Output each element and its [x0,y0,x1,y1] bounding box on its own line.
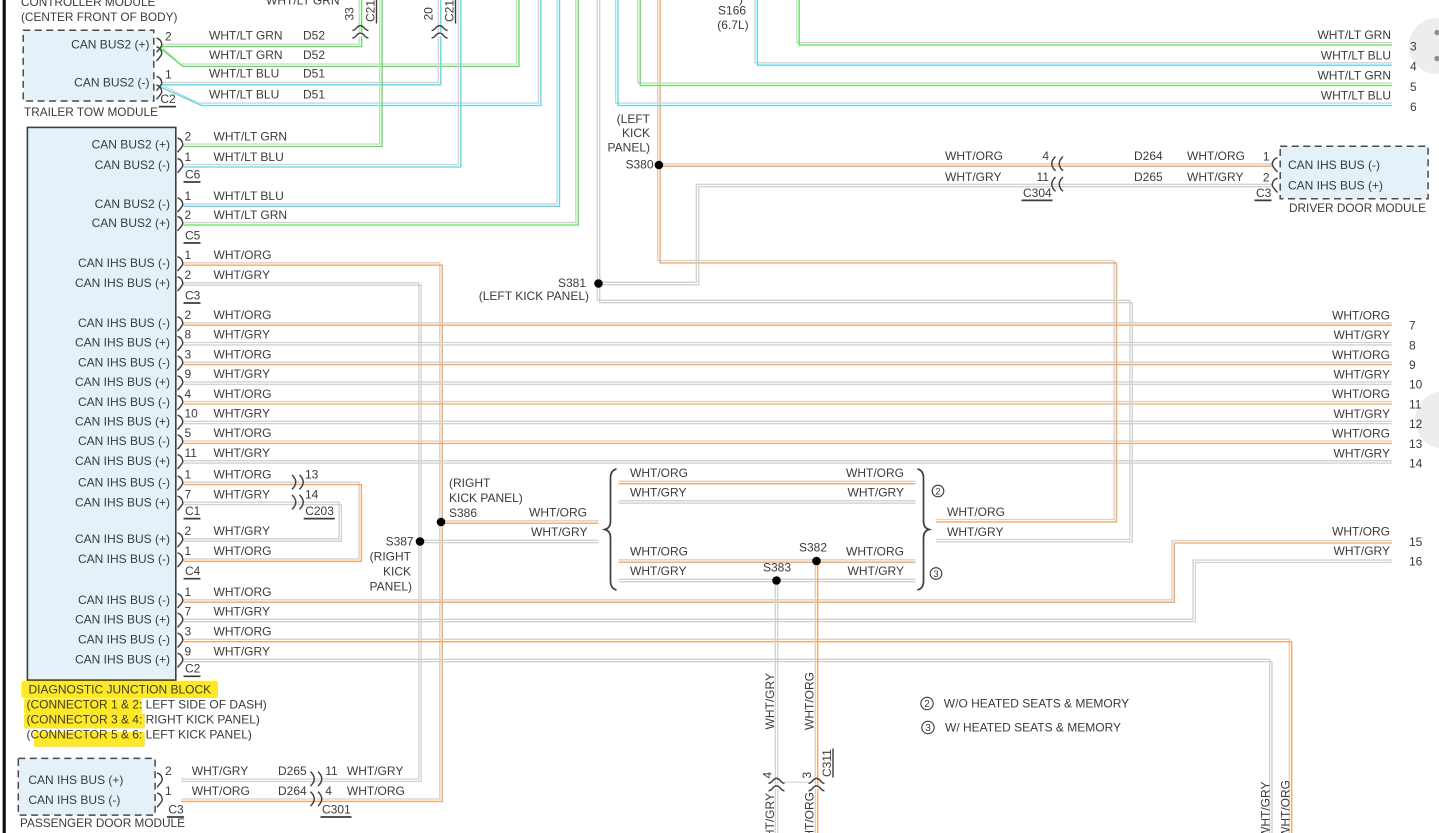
svg-text:S380: S380 [625,158,653,172]
svg-text:WHT/ORG: WHT/ORG [947,505,1005,519]
svg-text:3: 3 [1410,39,1417,53]
svg-text:2: 2 [165,29,172,43]
svg-text:WHT/ORG: WHT/ORG [1332,524,1390,538]
svg-text:WHT/GRY: WHT/GRY [531,525,587,539]
svg-text:CAN IHS BUS (+): CAN IHS BUS (+) [75,532,170,546]
svg-text:2: 2 [185,308,192,322]
svg-text:WHT/LT BLU: WHT/LT BLU [209,87,279,101]
svg-text:1: 1 [185,150,192,164]
svg-text:WHT/GRY: WHT/GRY [347,764,403,778]
svg-text:WHT/GRY: WHT/GRY [1334,446,1390,460]
svg-text:9: 9 [185,645,192,659]
svg-text:CAN IHS BUS (+): CAN IHS BUS (+) [75,653,170,667]
svg-text:(RIGHT: (RIGHT [449,476,491,490]
svg-text:WHT/ORG: WHT/ORG [803,672,817,730]
svg-text:3: 3 [933,569,938,580]
svg-text:WHT/ORG: WHT/ORG [846,466,904,480]
svg-text:5: 5 [1410,80,1417,94]
svg-text:2: 2 [924,699,930,710]
svg-text:13: 13 [305,467,319,481]
svg-text:CAN IHS BUS (-): CAN IHS BUS (-) [78,256,170,270]
svg-text:D52: D52 [303,48,325,62]
svg-text:3: 3 [800,772,814,779]
svg-text:KICK PANEL): KICK PANEL) [449,491,523,505]
svg-text:WHT/ORG: WHT/ORG [1332,308,1390,322]
svg-text:WHT/ORG: WHT/ORG [214,426,272,440]
svg-text:CAN BUS2 (-): CAN BUS2 (-) [74,76,149,90]
svg-text:D51: D51 [303,67,325,81]
svg-text:CAN IHS BUS (+): CAN IHS BUS (+) [1288,179,1383,193]
svg-text:CAN IHS BUS (+): CAN IHS BUS (+) [75,336,170,350]
svg-text:(CONNECTOR 1 & 2: LEFT SIDE OF: (CONNECTOR 1 & 2: LEFT SIDE OF DASH) [27,697,267,711]
svg-text:DRIVER DOOR MODULE: DRIVER DOOR MODULE [1289,201,1426,215]
svg-text:WHT/ORG: WHT/ORG [1332,427,1390,441]
svg-text:CAN IHS BUS (-): CAN IHS BUS (-) [78,552,170,566]
svg-text:2: 2 [935,486,940,497]
svg-text:WHT/LT GRN: WHT/LT GRN [1317,28,1391,42]
svg-text:WHT/GRY: WHT/GRY [214,487,270,501]
svg-text:TRAILER TOW MODULE: TRAILER TOW MODULE [24,105,158,119]
svg-text:WHT/GRY: WHT/GRY [1334,368,1390,382]
svg-text:(RIGHT: (RIGHT [370,550,412,564]
svg-text:20: 20 [422,7,436,21]
svg-text:S381: S381 [558,276,586,290]
svg-text:7: 7 [185,487,192,501]
svg-text:WHT/GRY: WHT/GRY [630,486,686,500]
svg-text:WHT/ORG: WHT/ORG [945,149,1003,163]
svg-text:11: 11 [1037,170,1050,184]
svg-text:WHT/ORG: WHT/ORG [214,585,272,599]
svg-text:4: 4 [185,387,192,401]
svg-text:7: 7 [1409,319,1416,333]
svg-text:(CONNECTOR 5 & 6: LEFT KICK PA: (CONNECTOR 5 & 6: LEFT KICK PANEL) [27,727,252,741]
svg-text:C210: C210 [443,0,457,22]
svg-text:WHT/GRY: WHT/GRY [848,486,904,500]
svg-text:8: 8 [1409,338,1416,352]
svg-text:WHT/LT BLU: WHT/LT BLU [1321,48,1391,62]
svg-text:2: 2 [185,524,192,538]
svg-text:1: 1 [185,544,192,558]
svg-text:16: 16 [1409,554,1423,568]
svg-text:WHT/ORG: WHT/ORG [1332,387,1390,401]
svg-text:1: 1 [185,467,192,481]
svg-text:11: 11 [1409,397,1422,411]
svg-text:C203: C203 [305,504,334,518]
svg-text:WHT/GRY: WHT/GRY [947,525,1003,539]
svg-text:11: 11 [325,764,338,778]
svg-text:2: 2 [165,764,172,778]
svg-text:KICK: KICK [622,126,650,140]
svg-text:2: 2 [185,208,192,222]
svg-text:WHT/ORG: WHT/ORG [630,545,688,559]
svg-text:WHT/ORG: WHT/ORG [192,784,250,798]
svg-text:2: 2 [1263,171,1270,185]
svg-text:D265: D265 [278,764,307,778]
svg-text:WHT/GRY: WHT/GRY [630,564,686,578]
svg-text:WHT/ORG: WHT/ORG [1279,780,1293,833]
svg-text:C2: C2 [185,662,201,676]
svg-text:WHT/GRY: WHT/GRY [214,367,270,381]
svg-text:CAN IHS BUS (-): CAN IHS BUS (-) [78,475,170,489]
svg-text:WHT/GRY: WHT/GRY [214,524,270,538]
svg-text:1: 1 [165,784,172,798]
svg-text:C3: C3 [185,288,201,302]
svg-text:WHT/GRY: WHT/GRY [214,407,270,421]
svg-text:WHT/ORG: WHT/ORG [630,466,688,480]
svg-text:6: 6 [1410,100,1417,114]
svg-text:WHT/LT BLU: WHT/LT BLU [1321,89,1391,103]
svg-text:WHT/ORG: WHT/ORG [214,248,272,262]
svg-text:WHT/GRY: WHT/GRY [1334,544,1390,558]
svg-text:4: 4 [761,772,775,779]
svg-text:3: 3 [185,625,192,639]
svg-text:WHT/GRY: WHT/GRY [214,446,270,460]
svg-text:7: 7 [185,605,192,619]
svg-text:12: 12 [1409,417,1423,431]
svg-text:C6: C6 [185,167,201,181]
svg-text:DIAGNOSTIC JUNCTION BLOCK: DIAGNOSTIC JUNCTION BLOCK [29,682,212,696]
svg-text:CAN BUS2 (-): CAN BUS2 (-) [95,197,170,211]
svg-text:14: 14 [1409,457,1423,471]
svg-text:CAN IHS BUS (+): CAN IHS BUS (+) [75,454,170,468]
svg-text:WHT/ORG: WHT/ORG [214,544,272,558]
svg-text:W/ HEATED SEATS & MEMORY: W/ HEATED SEATS & MEMORY [945,720,1121,734]
svg-text:CAN IHS BUS (-): CAN IHS BUS (-) [1288,158,1380,172]
svg-text:WHT/LT BLU: WHT/LT BLU [214,189,284,203]
svg-text:C3: C3 [1256,186,1272,200]
svg-text:S382: S382 [799,541,827,555]
svg-text:10: 10 [185,407,199,421]
svg-text:WHT/LT GRN: WHT/LT GRN [209,48,283,62]
svg-text:W/O HEATED SEATS & MEMORY: W/O HEATED SEATS & MEMORY [944,697,1129,711]
svg-text:WHT/GRY: WHT/GRY [214,605,270,619]
svg-text:C311: C311 [820,749,834,777]
svg-text:(LEFT: (LEFT [617,112,651,126]
svg-text:C301: C301 [322,802,351,816]
svg-text:CONTROLLER MODULE: CONTROLLER MODULE [21,0,156,9]
svg-text:WHT/LT GRN: WHT/LT GRN [266,0,340,8]
svg-text:CAN IHS BUS (-): CAN IHS BUS (-) [78,633,170,647]
svg-text:WHT/ORG: WHT/ORG [214,467,272,481]
svg-text:WHT/GRY: WHT/GRY [1334,407,1390,421]
svg-text:15: 15 [1409,535,1423,549]
svg-text:WHT/GRY: WHT/GRY [848,564,904,578]
svg-text:11: 11 [185,446,198,460]
svg-text:2: 2 [185,268,192,282]
svg-text:1: 1 [1263,150,1270,164]
svg-text:(CENTER FRONT OF BODY): (CENTER FRONT OF BODY) [21,10,177,24]
svg-text:9: 9 [185,367,192,381]
svg-text:C210: C210 [364,0,378,22]
svg-text:WHT/GRY: WHT/GRY [945,170,1001,184]
svg-text:CAN IHS BUS (+): CAN IHS BUS (+) [75,375,170,389]
svg-text:WHT/ORG: WHT/ORG [214,347,272,361]
svg-text:WHT/GRY: WHT/GRY [214,328,270,342]
svg-text:WHT/LT BLU: WHT/LT BLU [214,150,284,164]
svg-text:WHT/GRY: WHT/GRY [763,793,777,833]
svg-text:CAN IHS BUS (-): CAN IHS BUS (-) [78,355,170,369]
svg-text:C2: C2 [160,92,176,106]
svg-text:14: 14 [305,487,319,501]
svg-text:C1: C1 [185,504,201,518]
svg-text:KICK: KICK [383,565,411,579]
svg-text:WHT/LT GRN: WHT/LT GRN [209,28,283,42]
svg-text:WHT/ORG: WHT/ORG [1187,149,1245,163]
svg-text:1: 1 [185,189,192,203]
svg-text:CAN BUS2 (-): CAN BUS2 (-) [95,158,170,172]
svg-text:1: 1 [165,68,172,82]
svg-text:CAN IHS BUS (+): CAN IHS BUS (+) [28,773,123,787]
svg-text:S386: S386 [449,506,477,520]
svg-text:CAN IHS BUS (-): CAN IHS BUS (-) [78,434,170,448]
svg-text:(LEFT KICK PANEL): (LEFT KICK PANEL) [479,289,589,303]
svg-text:PANEL): PANEL) [370,580,412,594]
svg-text:(CONNECTOR 3 & 4: RIGHT KICK P: (CONNECTOR 3 & 4: RIGHT KICK PANEL) [27,712,260,726]
svg-text:4: 4 [1042,149,1049,163]
svg-text:D52: D52 [303,28,325,42]
svg-text:CAN IHS BUS (+): CAN IHS BUS (+) [75,613,170,627]
svg-text:WHT/ORG: WHT/ORG [214,308,272,322]
svg-text:4: 4 [325,784,332,798]
svg-text:(6.7L): (6.7L) [717,18,748,32]
svg-text:13: 13 [1409,437,1423,451]
svg-text:WHT/GRY: WHT/GRY [1334,328,1390,342]
svg-text:WHT/ORG: WHT/ORG [347,784,405,798]
svg-text:WHT/GRY: WHT/GRY [214,268,270,282]
svg-text:9: 9 [1409,358,1416,372]
svg-text:CAN IHS BUS (+): CAN IHS BUS (+) [75,415,170,429]
svg-text:WHT/ORG: WHT/ORG [846,545,904,559]
svg-text:CAN IHS BUS (-): CAN IHS BUS (-) [78,593,170,607]
svg-text:WHT/GRY: WHT/GRY [192,764,248,778]
svg-text:WHT/LT GRN: WHT/LT GRN [214,129,288,143]
svg-text:PANEL): PANEL) [608,141,650,155]
svg-text:CAN IHS BUS (+): CAN IHS BUS (+) [75,276,170,290]
svg-text:D51: D51 [303,87,325,101]
svg-text:WHT/ORG: WHT/ORG [214,387,272,401]
svg-text:CAN IHS BUS (-): CAN IHS BUS (-) [78,395,170,409]
svg-text:C304: C304 [1023,186,1052,200]
svg-text:CAN IHS BUS (-): CAN IHS BUS (-) [28,793,120,807]
svg-text:WHT/ORG: WHT/ORG [1332,348,1390,362]
svg-text:5: 5 [185,426,192,440]
svg-text:C3: C3 [168,802,184,816]
svg-text:WHT/LT GRN: WHT/LT GRN [1317,69,1391,83]
svg-text:C5: C5 [185,228,201,242]
svg-text:C4: C4 [185,564,201,578]
svg-text:D265: D265 [1134,170,1163,184]
svg-text:8: 8 [185,328,192,342]
svg-text:S383: S383 [763,561,791,575]
svg-text:CAN BUS2 (+): CAN BUS2 (+) [71,37,149,51]
svg-text:D264: D264 [1134,149,1163,163]
svg-text:PASSENGER DOOR MODULE: PASSENGER DOOR MODULE [20,816,185,830]
svg-text:1: 1 [185,248,192,262]
svg-text:WHT/LT GRN: WHT/LT GRN [214,208,288,222]
svg-text:D264: D264 [278,784,307,798]
svg-text:WHT/GRY: WHT/GRY [1187,170,1243,184]
svg-text:1: 1 [185,585,192,599]
svg-text:2: 2 [185,129,192,143]
svg-text:WHT/ORG: WHT/ORG [214,625,272,639]
svg-text:3: 3 [925,723,931,734]
svg-text:WHT/ORG: WHT/ORG [529,506,587,520]
svg-text:WHT/GRY: WHT/GRY [1259,782,1273,833]
svg-text:CAN IHS BUS (-): CAN IHS BUS (-) [78,316,170,330]
svg-text:CAN IHS BUS (+): CAN IHS BUS (+) [75,495,170,509]
svg-text:WHT/GRY: WHT/GRY [763,673,777,729]
svg-text:CAN BUS2 (+): CAN BUS2 (+) [92,137,170,151]
svg-text:WHT/ORG: WHT/ORG [803,792,817,833]
svg-text:WHT/GRY: WHT/GRY [214,645,270,659]
svg-text:CAN BUS2 (+): CAN BUS2 (+) [92,216,170,230]
svg-text:WHT/LT BLU: WHT/LT BLU [209,67,279,81]
svg-text:33: 33 [343,7,357,21]
svg-text:3: 3 [185,347,192,361]
svg-text:S387: S387 [386,535,414,549]
svg-text:4: 4 [1410,60,1417,74]
svg-text:): ) [739,0,743,6]
svg-text:10: 10 [1409,378,1423,392]
